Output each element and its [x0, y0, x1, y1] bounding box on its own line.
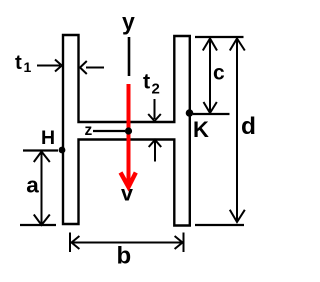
dimension a: vertical double arrow: [34, 151, 50, 225]
svg-text:t: t: [143, 70, 150, 94]
dimension c: vertical double arrow: [203, 38, 217, 113]
label t2: [143, 70, 160, 98]
svg-text:2: 2: [152, 81, 160, 98]
svg-text:1: 1: [24, 59, 32, 75]
dimension d: bottom reference line (at flange bottom): [195, 224, 244, 226]
dimension a: top reference line (at point H level): [23, 149, 58, 151]
svg-text:v: v: [121, 182, 133, 206]
point K dot: [186, 109, 194, 117]
label H: [41, 127, 55, 149]
dimension d: vertical double arrow: [230, 38, 245, 222]
label c: [213, 62, 225, 85]
svg-text:b: b: [117, 243, 132, 270]
label K: [193, 117, 209, 142]
label y: [122, 9, 135, 35]
y axis line: [128, 37, 131, 76]
point H dot: [59, 147, 66, 154]
label z: [85, 122, 93, 139]
dimension c/d: top reference line: [195, 36, 244, 38]
svg-text:K: K: [193, 117, 209, 142]
z axis line: [93, 130, 125, 132]
centroid dot (on web center): [125, 127, 132, 134]
dimension b: left tick: [69, 233, 71, 253]
svg-text:y: y: [122, 9, 135, 35]
svg-text:z: z: [85, 122, 93, 139]
svg-text:H: H: [41, 127, 55, 149]
dimension b: right tick: [183, 233, 185, 253]
H-section outline (two vertical flanges joined by horizontal web): [63, 35, 190, 226]
label b: [117, 243, 132, 270]
t2 down-pointing arrow (above web): [148, 99, 161, 121]
dimension c: bottom reference line (at K level): [193, 113, 230, 115]
label a: [26, 173, 39, 198]
svg-text:t: t: [15, 51, 22, 74]
label t1: [15, 51, 32, 75]
svg-text:a: a: [26, 173, 39, 198]
label d: [241, 113, 256, 140]
svg-text:d: d: [241, 113, 256, 140]
shear force V red arrow: [121, 84, 136, 187]
t1 left-pointing arrow (right side of flange): [80, 61, 104, 74]
svg-text:c: c: [213, 62, 225, 85]
dimension a: bottom reference line (at flange bottom): [20, 224, 56, 226]
dimension b: horizontal double arrow: [71, 236, 183, 249]
label v: [121, 182, 133, 206]
t2 up-pointing arrow (below web): [149, 140, 162, 162]
t1 right-pointing arrow (left side of flange): [37, 60, 62, 72]
